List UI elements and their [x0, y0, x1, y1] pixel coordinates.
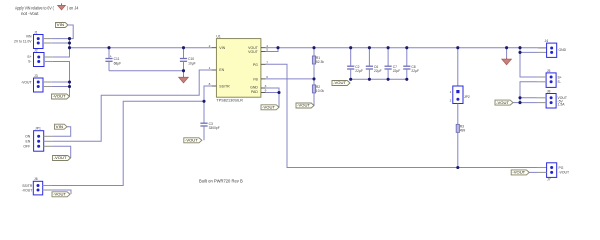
svg-text:) on J4: ) on J4: [67, 5, 79, 10]
svg-text:S+: S+: [27, 55, 31, 59]
svg-text:EN: EN: [25, 139, 30, 143]
ground symbol GND (output rail): [502, 48, 512, 65]
junction -VOUT bus / J8 pin1: [518, 96, 521, 99]
connector J7 (PG / -VOUT): [547, 163, 569, 182]
svg-text:-VOUT: -VOUT: [333, 81, 346, 85]
pin 4 stub (U1 VOUT): [261, 44, 268, 48]
wire JP1 EN pin to U1 EN: [52, 70, 211, 141]
wire VOUT 0V rail: [278, 47, 538, 49]
junction VOUT rail / C6: [368, 46, 371, 49]
svg-text:SS/TR: SS/TR: [22, 184, 33, 188]
connector J4 (GND): [545, 39, 567, 57]
svg-text:22µF: 22µF: [374, 69, 382, 73]
junction J3 pin2 / -VOUT bus: [68, 85, 71, 88]
svg-text:-VOUT: -VOUT: [512, 171, 525, 175]
svg-text:J2: J2: [34, 48, 38, 52]
resistor R3 499: [456, 124, 465, 168]
svg-text:TPS82130SILR: TPS82130SILR: [216, 99, 243, 103]
svg-text:2: 2: [450, 98, 452, 102]
svg-text:-VOUT: -VOUT: [262, 106, 275, 110]
net label -VOUT (at U1 GND/PAD): [261, 105, 279, 110]
svg-text:J5: J5: [547, 69, 551, 73]
connector J1 (VIN input): [14, 30, 43, 48]
svg-text:PAD: PAD: [251, 90, 258, 94]
svg-text:SS/TR: SS/TR: [219, 84, 230, 88]
wire J6 pin2 to -VOUT tag: [51, 190, 71, 194]
junction C10 bottom / GND: [182, 69, 185, 72]
pin stubs of J6: [43, 185, 52, 187]
ground symbol GND (input caps): [179, 71, 189, 83]
net label -VOUT (at C3): [184, 138, 202, 143]
svg-text:10.0k: 10.0k: [316, 89, 324, 93]
pin 7 stub (U1 PG): [261, 61, 268, 65]
connector J6 (SS/TR): [22, 177, 43, 195]
pin 9 stub (U1 PAD): [261, 89, 267, 93]
junction R3 / PG rail: [456, 166, 459, 169]
svg-text:10µF: 10µF: [188, 61, 196, 65]
junction VOUT rail / GND symbol: [505, 46, 508, 49]
junction VIN rail / C10: [182, 46, 185, 49]
svg-text:VOUT: VOUT: [248, 50, 259, 54]
svg-text:-VOUT: -VOUT: [54, 156, 67, 160]
connector J5 (output sense): [546, 69, 562, 88]
junction J1 pin1 / VIN: [68, 37, 71, 40]
svg-text:VIN: VIN: [219, 46, 225, 50]
pin 8 stub (U1 SS/TR): [209, 82, 217, 86]
junction J4 pin2 branch: [518, 51, 521, 54]
wire VIN bus vertical: [69, 39, 71, 48]
svg-text:J3: J3: [34, 74, 38, 78]
net label VIN (at JP1 ON): [55, 124, 68, 129]
wire J2 S+ to VIN rail: [53, 48, 70, 57]
wire U1 SS/TR to junction: [204, 86, 212, 101]
svg-text:-VOUT: -VOUT: [297, 104, 310, 108]
pin 5 stub (U1 VOUT): [261, 48, 268, 52]
pin 1 stub (U1 EN): [209, 66, 217, 70]
capacitor C11 68uF (polarized): [105, 48, 121, 71]
wire J1 pin 2 to VIN bus: [52, 42, 70, 44]
capacitor C7 22uF: [385, 48, 401, 80]
svg-text:VIN: VIN: [26, 34, 32, 38]
jumper JP2 (PG pull-up): [450, 86, 470, 104]
pin stubs of JP1: [44, 135, 53, 137]
svg-text:-VOUT: -VOUT: [559, 171, 570, 175]
svg-text:1.5A: 1.5A: [558, 103, 566, 107]
net label -VOUT (at J7): [511, 170, 529, 175]
junction VOUT rail / J5 branch: [518, 46, 521, 49]
svg-text:not -Vout: not -Vout: [21, 11, 39, 16]
svg-text:2V to 11.0V: 2V to 11.0V: [14, 39, 32, 43]
svg-text:-VOUT: -VOUT: [21, 80, 32, 84]
wire bus to J8 pin 2: [520, 102, 537, 104]
svg-text:S-: S-: [28, 60, 31, 64]
svg-text:22µF: 22µF: [393, 69, 401, 73]
net label -VOUT (at JP1 OFF): [53, 156, 71, 161]
svg-text:FB: FB: [253, 78, 258, 82]
svg-text:J1: J1: [34, 30, 38, 34]
svg-text:3300pF: 3300pF: [209, 126, 220, 130]
pin stubs of J1: [43, 38, 52, 40]
wire JP1 OFF pin to -VOUT tag: [52, 146, 70, 158]
pin stub J4 pin1 entry: [538, 47, 547, 49]
svg-text:J7: J7: [547, 178, 551, 182]
junction VIN bus / VIN rail: [68, 46, 71, 49]
svg-text:22µF: 22µF: [355, 69, 363, 73]
resistor R2 10.0k: [312, 79, 324, 106]
wire PAD junction to -VOUT tag: [278, 93, 280, 108]
wire U1 GND pin down to PAD: [266, 88, 279, 93]
pin stubs of J5: [537, 76, 546, 78]
svg-text:-VOUT: -VOUT: [22, 188, 33, 192]
junction J1 pin2 / VIN: [68, 41, 71, 44]
wire J2 S- to -VOUT bus: [53, 62, 70, 97]
svg-text:OFF: OFF: [23, 145, 30, 149]
svg-text:PG: PG: [559, 166, 564, 170]
wire bus to J8 pin 1: [520, 97, 537, 99]
junction VOUT rail / C7: [387, 46, 390, 49]
svg-text:S+: S+: [558, 75, 562, 79]
wire U1 VOUT pin4 to rail: [266, 47, 278, 49]
wire -VOUT tag to J8 bus: [513, 102, 520, 104]
pin stubs of J3: [43, 81, 52, 83]
ground symbol (0V) inline in note: [58, 3, 66, 10]
capacitor C3 3300pF: [200, 101, 219, 140]
junction FB node: [312, 77, 315, 80]
wire VIN tag to JP1 ON pin: [52, 127, 70, 137]
junction SS/TR wire / C3: [202, 100, 205, 103]
capacitor C10 10uF: [180, 48, 196, 71]
svg-text:JP2: JP2: [464, 95, 470, 99]
wire J1 pin 1 to VIN bus: [52, 38, 70, 40]
connector J2 (input sense): [27, 48, 44, 66]
wire U1 FB to divider node: [266, 78, 314, 80]
junction C2 bottom / -VOUT rail: [349, 78, 352, 81]
junction VOUT rail / C8: [405, 46, 408, 49]
net label VIN (input rail): [56, 23, 69, 28]
net label -VOUT (at J8): [495, 100, 513, 105]
pin stub J7 pin2 entry: [538, 171, 547, 173]
wire VOUT rail to JP2 pin 1: [457, 48, 459, 86]
junction VOUT pins: [276, 46, 279, 49]
wire VIN tag to J1 pin 1 node: [68, 25, 73, 39]
svg-text:S-: S-: [558, 80, 561, 84]
svg-text:U1: U1: [216, 35, 220, 39]
wire J5 S- to -VOUT bus: [520, 82, 537, 103]
svg-text:VIN: VIN: [56, 125, 64, 129]
svg-text:J8: J8: [547, 89, 551, 93]
pin stubs of J8: [537, 97, 546, 99]
connector J3 (-VOUT input side): [21, 74, 43, 92]
capacitor C2 22uF: [347, 48, 363, 80]
op-amp U1 TPS82130SILR power module body: [216, 35, 261, 103]
wire branch to J4 pin 2: [520, 51, 538, 53]
wire J3 pin 1 to -VOUT bus: [52, 81, 70, 83]
junction C7 bottom / -VOUT rail: [387, 78, 390, 81]
pin 2 stub (U1 VIN): [209, 44, 217, 48]
junction C6 bottom / -VOUT rail: [368, 78, 371, 81]
connector J8 (VOUT -5V): [546, 89, 567, 108]
pin 6 stub (U1 FB): [261, 75, 268, 79]
svg-text:68µF: 68µF: [114, 61, 122, 65]
svg-text:Apply VIN relative to 0V (: Apply VIN relative to 0V (: [15, 5, 54, 10]
capacitor C6 22uF: [366, 48, 382, 80]
svg-text:J4: J4: [545, 39, 549, 43]
svg-text:1: 1: [450, 90, 452, 94]
pin stubs of J2: [44, 56, 53, 58]
svg-text:-VOUT: -VOUT: [496, 101, 509, 105]
wire U1 PAD pin: [266, 92, 279, 94]
net label -VOUT (at J6): [52, 192, 70, 197]
svg-text:J6: J6: [34, 177, 38, 181]
jumper JP1 (ON/EN/OFF): [23, 127, 43, 152]
svg-text:2: 2: [209, 44, 211, 48]
svg-text:GND: GND: [559, 48, 567, 52]
net label -VOUT (output caps): [332, 81, 350, 86]
wire U1 VOUT pin5 join: [266, 48, 278, 52]
svg-text:ON: ON: [25, 134, 31, 138]
svg-text:-VOUT: -VOUT: [53, 95, 66, 99]
junction C8 bottom / -VOUT rail: [405, 78, 408, 81]
wire J6 SS/TR to U1 SS/TR: [51, 101, 204, 185]
net label -VOUT (left bus): [52, 94, 70, 99]
svg-text:GND: GND: [250, 85, 258, 89]
pin 3 stub (U1 GND): [261, 84, 267, 88]
junction VOUT rail / R1: [312, 46, 315, 49]
wire U1 PG to J7 (PG rail): [266, 64, 538, 167]
net label -VOUT (at R2): [296, 103, 314, 108]
svg-text:EN: EN: [219, 68, 224, 72]
wire -VOUT tag to J7 pin 2: [529, 171, 538, 173]
svg-text:Built on PWR720 Rev B: Built on PWR720 Rev B: [199, 179, 243, 184]
junction -VOUT bus / J8 pin2: [518, 101, 521, 104]
pin stubs of J4: [538, 47, 547, 49]
pin stub J7 pin1 entry: [538, 167, 547, 169]
svg-text:+: +: [110, 55, 112, 59]
junction GND/PAD: [277, 91, 280, 94]
svg-text:52.3k: 52.3k: [316, 60, 324, 64]
resistor R1 52.3k: [312, 48, 324, 79]
svg-text:22µF: 22µF: [411, 69, 419, 73]
junction VOUT rail / C2: [349, 46, 352, 49]
junction J3 pin1 / -VOUT bus: [68, 80, 71, 83]
svg-text:JP1: JP1: [35, 127, 41, 131]
junction VIN rail / C11: [107, 46, 110, 49]
svg-text:PG: PG: [253, 63, 258, 67]
wire input caps bottom rail: [109, 70, 184, 72]
wire JP2 pin 2 to R3: [457, 104, 459, 125]
wire output caps -VOUT rail: [351, 78, 407, 80]
wire VIN rail to U1 VIN: [70, 47, 212, 49]
svg-text:499: 499: [460, 128, 466, 132]
svg-text:-VOUT: -VOUT: [53, 193, 66, 197]
wire J3 pin 2 to -VOUT bus: [52, 86, 70, 88]
junction VOUT rail / JP2: [456, 46, 459, 49]
svg-text:1: 1: [209, 66, 211, 70]
capacitor C8 22uF: [403, 48, 419, 80]
svg-text:-VOUT: -VOUT: [185, 139, 198, 143]
wire rail branch down to J5 S+: [520, 48, 537, 77]
svg-text:VIN: VIN: [57, 23, 65, 27]
